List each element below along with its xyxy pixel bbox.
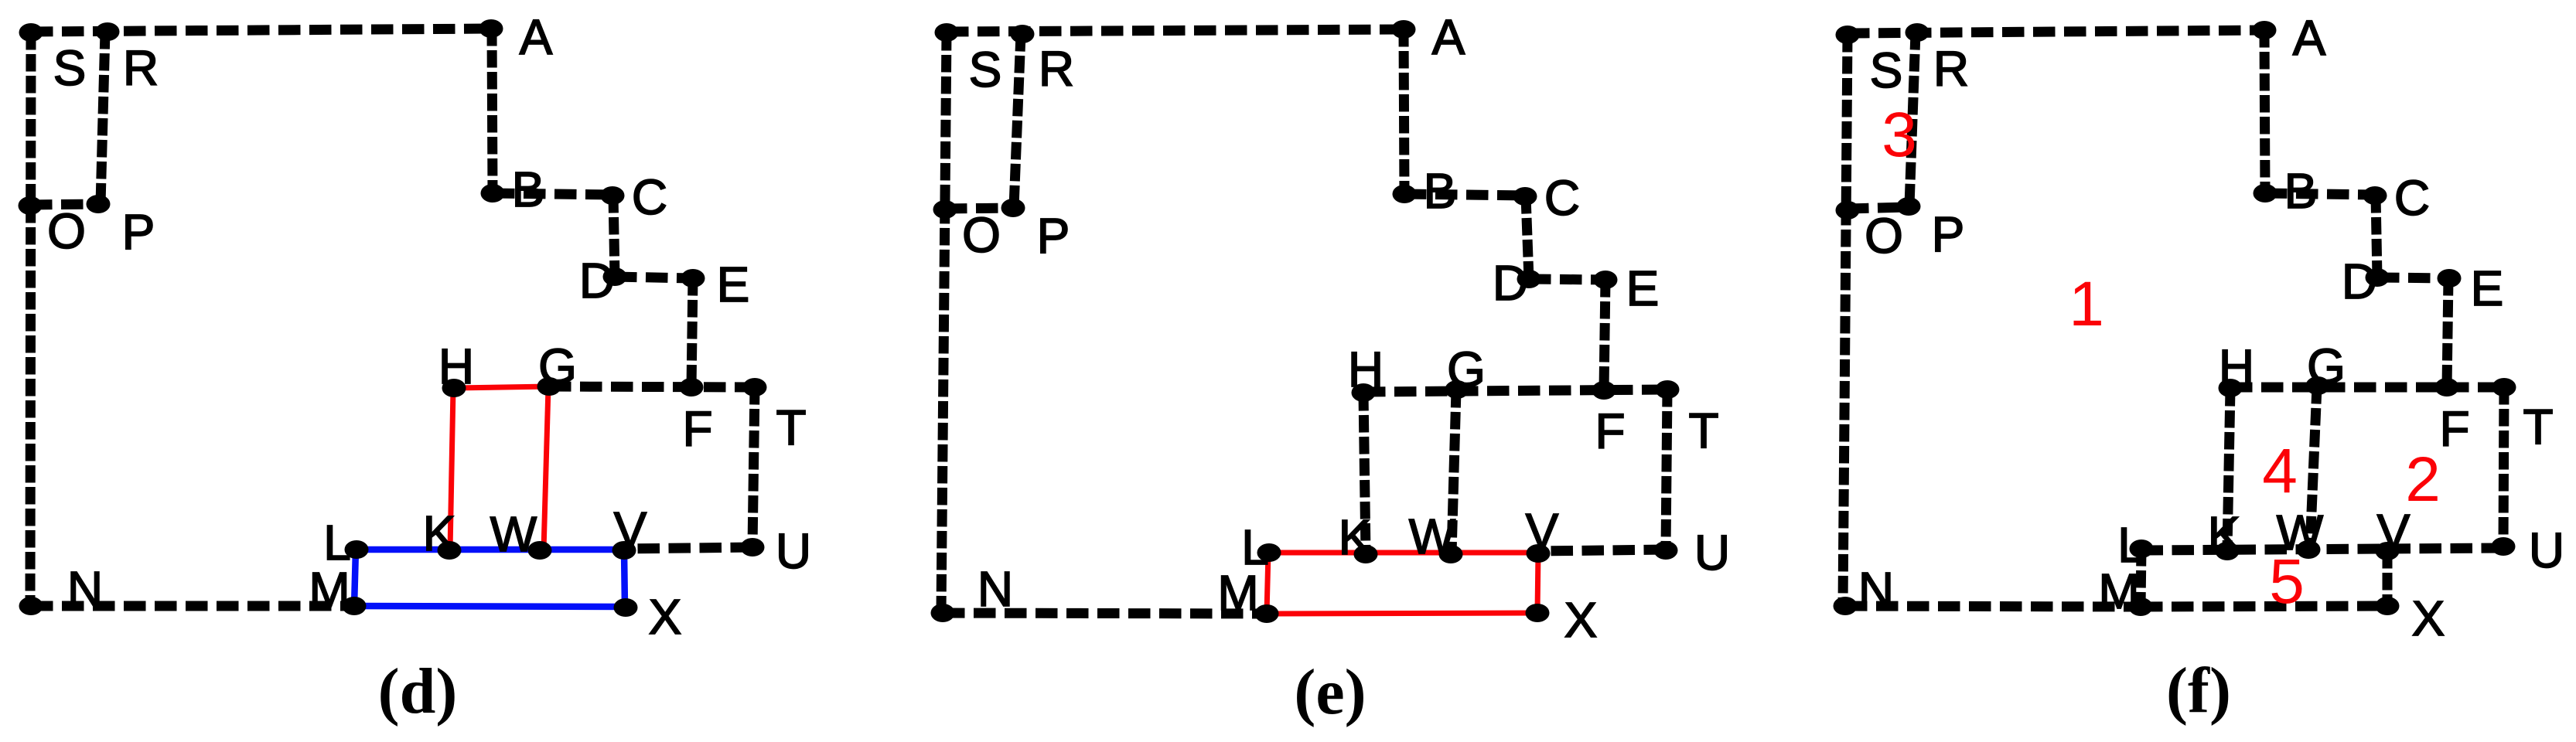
svg-text:B: B bbox=[1424, 163, 1457, 219]
node e P bbox=[1001, 199, 1070, 264]
node e B bbox=[1393, 163, 1457, 219]
node f X bbox=[2376, 591, 2445, 646]
wire d E-F dashed bbox=[691, 278, 693, 387]
svg-text:R: R bbox=[123, 40, 159, 96]
node d P bbox=[87, 195, 155, 260]
wire e H-K dashed bbox=[1363, 393, 1366, 553]
wire f B-C dashed bbox=[2265, 193, 2375, 195]
node f N bbox=[1834, 562, 1895, 618]
svg-text:1: 1 bbox=[2069, 269, 2104, 339]
polygon panel (e) bbox=[931, 9, 1731, 728]
polygon panel (f) bbox=[1834, 10, 2565, 727]
node e L bbox=[1241, 519, 1281, 575]
node d V bbox=[612, 502, 647, 560]
wire d T-U dashed bbox=[752, 387, 755, 547]
wire e T-U dashed bbox=[1666, 390, 1667, 550]
node d W bbox=[490, 506, 552, 562]
wire f E-F dashed bbox=[2447, 278, 2448, 387]
svg-text:H: H bbox=[438, 339, 474, 394]
node f E bbox=[2438, 260, 2504, 316]
node e M bbox=[1217, 565, 1278, 623]
svg-text:C: C bbox=[1544, 170, 1580, 226]
svg-text:P: P bbox=[1037, 208, 1070, 264]
node e C bbox=[1513, 170, 1581, 226]
node d B bbox=[481, 162, 545, 217]
svg-text:K: K bbox=[1339, 509, 1372, 565]
svg-text:X: X bbox=[649, 589, 682, 645]
node d X bbox=[614, 589, 682, 645]
wire d M-X blue cut bbox=[354, 606, 626, 607]
svg-text:F: F bbox=[2439, 401, 2469, 457]
node d U bbox=[741, 523, 812, 579]
svg-text:D: D bbox=[579, 253, 615, 308]
svg-text:R: R bbox=[1039, 41, 1074, 97]
node d N bbox=[19, 561, 104, 617]
svg-text:M: M bbox=[2098, 563, 2139, 619]
wire e R-P dashed bbox=[1014, 34, 1021, 207]
node d L bbox=[323, 515, 368, 570]
node d H bbox=[438, 339, 474, 397]
node e N bbox=[931, 561, 1014, 622]
svg-text:B: B bbox=[512, 162, 545, 217]
node d C bbox=[601, 169, 668, 225]
node f A bbox=[2253, 10, 2326, 66]
wire f V-X dashed bbox=[2383, 551, 2393, 606]
node f G bbox=[2306, 339, 2346, 395]
svg-text:P: P bbox=[122, 204, 155, 260]
wire e L-M red cut bbox=[1267, 553, 1268, 614]
node f F bbox=[2435, 378, 2470, 457]
polygon panel (d) bbox=[19, 9, 812, 727]
wire e S-A dashed bbox=[947, 29, 1404, 32]
node f O bbox=[1836, 201, 1903, 264]
wire e D-E dashed bbox=[1529, 279, 1605, 280]
svg-text:U: U bbox=[2529, 522, 2564, 578]
svg-text:K: K bbox=[423, 505, 456, 561]
svg-text:U: U bbox=[1694, 525, 1730, 580]
node e G bbox=[1445, 342, 1486, 399]
node e A bbox=[1392, 9, 1465, 65]
wire d G-F-T dashed bbox=[549, 386, 755, 387]
wire f S-A dashed bbox=[1848, 30, 2264, 33]
wire e A-B dashed bbox=[1404, 29, 1404, 194]
wire d D-E dashed bbox=[615, 277, 693, 278]
node e V bbox=[1526, 503, 1559, 563]
node f W bbox=[2277, 505, 2324, 560]
wire d S-A dashed bbox=[31, 29, 491, 32]
node f R bbox=[1906, 23, 1970, 97]
node d D bbox=[579, 253, 627, 308]
wire f S-O-N dashed bbox=[1843, 35, 1848, 606]
node e E bbox=[1594, 260, 1660, 316]
wire f H-K dashed bbox=[2227, 389, 2230, 550]
wire d R-P dashed bbox=[101, 32, 105, 204]
wire e G-W dashed bbox=[1452, 390, 1456, 553]
svg-text:N: N bbox=[1858, 562, 1894, 618]
node f T bbox=[2492, 378, 2554, 454]
node e K bbox=[1339, 509, 1378, 565]
node d M bbox=[309, 562, 366, 618]
svg-text:G: G bbox=[2307, 339, 2346, 394]
wire d X-V blue cut bbox=[624, 550, 625, 608]
svg-text:T: T bbox=[2523, 399, 2553, 454]
svg-text:B: B bbox=[2284, 163, 2318, 219]
wire d B-C dashed bbox=[493, 193, 612, 195]
wire e O-P dashed bbox=[945, 208, 1013, 209]
wire d O-P dashed bbox=[30, 204, 98, 205]
svg-text:(e): (e) bbox=[1294, 656, 1366, 728]
node f U bbox=[2492, 522, 2565, 578]
svg-text:M: M bbox=[1217, 565, 1258, 621]
wire f T-U dashed bbox=[2503, 387, 2504, 546]
wire d C-D dashed bbox=[613, 196, 615, 277]
wire d L-M blue cut bbox=[354, 550, 356, 606]
svg-text:C: C bbox=[2394, 170, 2430, 226]
svg-text:(d): (d) bbox=[378, 655, 458, 727]
svg-text:N: N bbox=[67, 561, 103, 617]
node d T bbox=[743, 378, 807, 455]
node e F bbox=[1592, 381, 1626, 459]
wire e B-C dashed bbox=[1404, 194, 1524, 196]
node d S bbox=[19, 23, 87, 96]
node e T bbox=[1656, 380, 1719, 458]
svg-text:D: D bbox=[2342, 254, 2377, 309]
wire d G-W red cut bbox=[544, 387, 548, 550]
node e W bbox=[1409, 509, 1463, 564]
svg-text:A: A bbox=[1432, 9, 1465, 65]
node d A bbox=[479, 9, 553, 65]
node f P bbox=[1897, 197, 1965, 262]
node e H bbox=[1348, 342, 1384, 402]
svg-text:R: R bbox=[1933, 41, 1969, 97]
wire f N-M dashed bbox=[1845, 606, 2141, 607]
wire f G-W dashed bbox=[2310, 386, 2317, 549]
svg-text:G: G bbox=[1447, 342, 1486, 397]
svg-text:G: G bbox=[538, 339, 577, 394]
node f C bbox=[2363, 170, 2431, 226]
svg-text:W: W bbox=[1409, 509, 1456, 564]
wire d H-G red cut bbox=[454, 386, 549, 388]
wire f D-E dashed bbox=[2377, 277, 2449, 278]
wire d S-O-N dashed bbox=[30, 32, 31, 606]
svg-text:3: 3 bbox=[1882, 100, 1917, 170]
wire f R-P dashed bbox=[1909, 32, 1916, 206]
svg-text:V: V bbox=[614, 502, 647, 557]
node f L bbox=[2117, 517, 2153, 573]
node e U bbox=[1654, 525, 1731, 580]
wire f O-P dashed bbox=[1847, 207, 1909, 209]
node e X bbox=[1526, 592, 1598, 648]
wire f A-B dashed bbox=[2264, 30, 2265, 193]
svg-text:V: V bbox=[1526, 503, 1559, 559]
svg-text:S: S bbox=[969, 42, 1002, 97]
svg-text:O: O bbox=[962, 207, 1001, 263]
svg-text:5: 5 bbox=[2269, 546, 2305, 617]
wire f C-D dashed bbox=[2376, 196, 2377, 277]
svg-text:F: F bbox=[1595, 403, 1625, 459]
wire d N-M dashed bbox=[31, 601, 354, 611]
svg-text:4: 4 bbox=[2262, 436, 2298, 506]
node f V bbox=[2376, 504, 2411, 560]
node d G bbox=[537, 339, 577, 396]
svg-text:X: X bbox=[2412, 591, 2445, 646]
node e R bbox=[1011, 25, 1075, 97]
wire f H-G-F-T dashed bbox=[2230, 383, 2504, 393]
svg-text:X: X bbox=[1564, 592, 1598, 648]
svg-text:H: H bbox=[2219, 339, 2254, 395]
svg-text:2: 2 bbox=[2405, 444, 2441, 515]
svg-text:A: A bbox=[2293, 10, 2326, 66]
node e D bbox=[1493, 255, 1541, 311]
node d E bbox=[681, 257, 750, 312]
wire e X-V red cut bbox=[1537, 553, 1538, 613]
svg-text:T: T bbox=[1688, 403, 1718, 458]
wire d H-K red cut bbox=[450, 389, 453, 550]
svg-text:E: E bbox=[717, 257, 750, 312]
svg-text:F: F bbox=[682, 401, 712, 457]
wire d L-V blue cut bbox=[357, 546, 624, 553]
wire d U-V dashed bbox=[624, 547, 752, 549]
wire e U-V dashed bbox=[1538, 550, 1666, 551]
node f H bbox=[2219, 339, 2255, 397]
svg-text:N: N bbox=[978, 561, 1013, 617]
svg-text:K: K bbox=[2208, 506, 2241, 562]
wire e S-O-N dashed bbox=[941, 33, 947, 613]
svg-text:O: O bbox=[1865, 208, 1903, 264]
node e S bbox=[935, 23, 1002, 97]
wire e N-M dashed bbox=[943, 613, 1267, 614]
wire f U-V-W-K-L dashed bbox=[2141, 548, 2503, 550]
wire d A-B dashed bbox=[492, 29, 493, 193]
svg-text:E: E bbox=[1626, 260, 1660, 316]
svg-text:E: E bbox=[2471, 260, 2504, 316]
svg-text:H: H bbox=[1348, 342, 1384, 397]
wire e E-F dashed bbox=[1604, 280, 1605, 390]
svg-text:A: A bbox=[520, 9, 553, 65]
svg-text:P: P bbox=[1932, 206, 1965, 262]
node f B bbox=[2254, 163, 2318, 219]
svg-text:S: S bbox=[53, 40, 87, 96]
node d F bbox=[680, 378, 713, 457]
wire e H-G-F-T dashed bbox=[1363, 390, 1667, 392]
wire e L-V red cut bbox=[1269, 550, 1538, 556]
svg-text:T: T bbox=[776, 400, 806, 455]
wire e M-X red cut bbox=[1267, 613, 1537, 614]
wire f M-X dashed bbox=[2141, 606, 2387, 607]
node d R bbox=[96, 22, 159, 96]
svg-text:M: M bbox=[309, 562, 350, 618]
node d O bbox=[19, 196, 86, 259]
node f K bbox=[2208, 506, 2241, 562]
svg-text:D: D bbox=[1493, 255, 1528, 311]
node f M bbox=[2098, 563, 2152, 619]
node e O bbox=[933, 200, 1001, 263]
svg-text:(f): (f) bbox=[2166, 655, 2231, 727]
svg-text:S: S bbox=[1870, 43, 1903, 98]
wire f L-M dashed bbox=[2141, 549, 2141, 607]
svg-text:C: C bbox=[632, 169, 667, 225]
node f D bbox=[2342, 254, 2390, 309]
svg-text:W: W bbox=[490, 506, 537, 562]
node d K bbox=[423, 505, 462, 561]
wire e C-D dashed bbox=[1526, 196, 1529, 279]
svg-text:O: O bbox=[47, 203, 86, 259]
node f S bbox=[1836, 26, 1903, 98]
svg-text:U: U bbox=[776, 523, 811, 579]
